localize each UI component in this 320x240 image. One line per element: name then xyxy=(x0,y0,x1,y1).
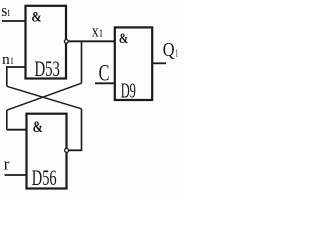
wire D56 upper input horizontal xyxy=(7,129,27,131)
svg-text:s: s xyxy=(1,1,7,20)
svg-text:n: n xyxy=(2,52,10,68)
wire s1 input xyxy=(2,20,26,22)
wire diagonal n1-net to feedback (top-left to bottom-right) xyxy=(7,86,82,109)
svg-text:r: r xyxy=(4,155,10,174)
wire r input xyxy=(5,174,27,176)
wire Q1 output xyxy=(152,62,166,64)
gate D9 body xyxy=(115,27,152,100)
wire n1 input horizontal xyxy=(7,66,27,68)
wire feedback vertical from D56 output xyxy=(81,109,83,151)
svg-text:1: 1 xyxy=(7,8,10,18)
wire n1 vertical drop xyxy=(6,66,8,86)
svg-text:&: & xyxy=(33,119,43,136)
svg-text:1: 1 xyxy=(175,48,178,60)
svg-text:1: 1 xyxy=(11,56,14,66)
gate D56 body xyxy=(27,114,67,189)
inversion bubble on D56 output xyxy=(65,148,69,152)
svg-text:&: & xyxy=(119,31,128,47)
wire from D56 output bubble xyxy=(69,149,83,151)
svg-text:D56: D56 xyxy=(32,165,57,190)
wire C input xyxy=(95,82,115,84)
wire x1 branch vertical xyxy=(81,41,83,83)
wire x1 output of D53 to D9 input xyxy=(68,40,115,42)
svg-text:&: & xyxy=(31,10,41,26)
svg-text:D53: D53 xyxy=(35,56,60,81)
svg-text:1: 1 xyxy=(100,29,103,40)
gate D53 body xyxy=(26,6,67,79)
wire left vertical to D56 upper input xyxy=(6,110,8,130)
svg-text:D9: D9 xyxy=(121,78,136,102)
wire diagonal x1-net to D56 input (top-right to bottom-left) xyxy=(7,83,82,110)
inversion bubble on D53 output xyxy=(64,40,68,44)
svg-text:Q: Q xyxy=(163,39,175,61)
svg-text:x: x xyxy=(92,22,99,41)
svg-text:C: C xyxy=(99,61,110,86)
